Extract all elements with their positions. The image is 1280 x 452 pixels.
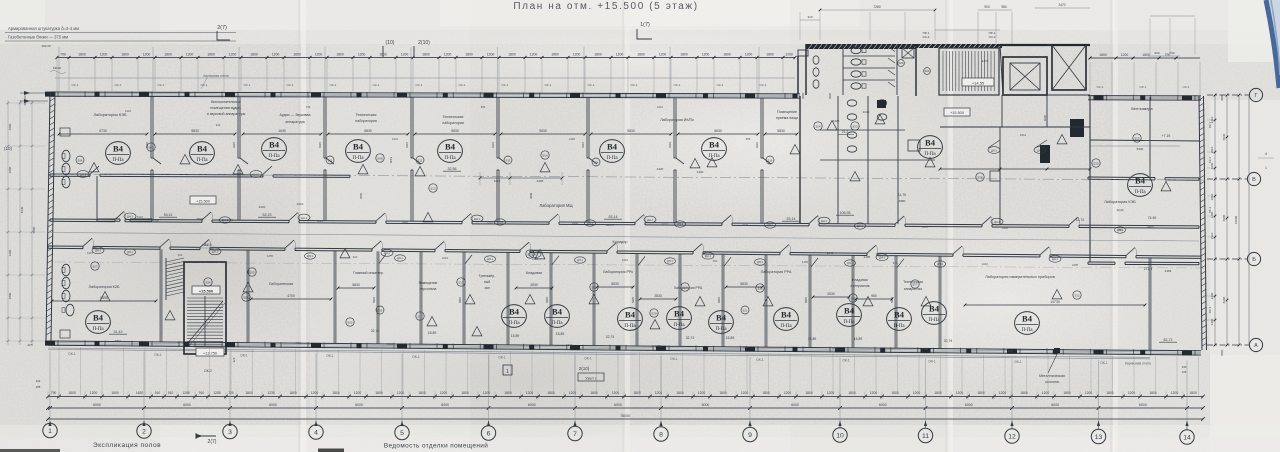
svg-text:ДН-1: ДН-1: [991, 148, 997, 152]
svg-text:533: 533: [1134, 136, 1139, 140]
svg-text:1200: 1200: [483, 391, 491, 395]
svg-text:П-Па: П-Па: [1021, 328, 1033, 333]
svg-text:790: 790: [60, 53, 66, 57]
svg-text:1200: 1200: [100, 53, 108, 57]
svg-text:48170: 48170: [606, 223, 615, 227]
svg-text:1255: 1255: [213, 391, 221, 395]
svg-text:Венткамера: Венткамера: [1131, 107, 1153, 111]
svg-text:1200: 1200: [1121, 53, 1129, 57]
svg-text:310: 310: [807, 15, 812, 19]
svg-text:ОК-1: ОК-1: [756, 358, 764, 362]
svg-text:2470: 2470: [1058, 3, 1065, 7]
svg-text:1200: 1200: [702, 53, 710, 57]
svg-text:3: 3: [228, 429, 232, 436]
svg-text:Г: Г: [1255, 93, 1258, 99]
svg-text:ОК-1: ОК-1: [1014, 360, 1022, 364]
svg-text:Лаборантская: Лаборантская: [269, 282, 293, 286]
svg-text:(10): (10): [4, 146, 13, 151]
svg-text:5945: 5945: [545, 297, 549, 303]
svg-text:4700: 4700: [287, 294, 295, 298]
svg-text:5830: 5830: [451, 129, 459, 133]
svg-text:5945: 5945: [458, 297, 462, 303]
svg-text:504: 504: [78, 158, 83, 162]
svg-text:13: 13: [1095, 434, 1103, 441]
svg-text:ОК-1: ОК-1: [842, 359, 850, 363]
svg-text:1010: 1010: [982, 262, 988, 266]
svg-text:ДН-1: ДН-1: [127, 215, 133, 219]
svg-text:ОК-1: ОК-1: [244, 83, 251, 87]
svg-text:и звуковой аппаратуры: и звуковой аппаратуры: [207, 112, 246, 116]
svg-text:ОК-1: ОК-1: [72, 83, 79, 87]
svg-text:501: 501: [243, 295, 248, 299]
svg-text:4(10): 4(10): [1116, 208, 1123, 212]
svg-text:Помещение: Помещение: [777, 110, 797, 114]
svg-text:1010: 1010: [317, 219, 323, 223]
svg-text:32,56: 32,56: [448, 167, 457, 171]
svg-text:1010: 1010: [297, 202, 304, 206]
svg-text:1255: 1255: [267, 254, 273, 258]
svg-text:ДН-1: ДН-1: [847, 262, 853, 265]
svg-text:ОК-1: ОК-1: [201, 83, 208, 87]
svg-text:6000: 6000: [614, 403, 622, 407]
svg-text:Главный инженер: Главный инженер: [353, 271, 383, 275]
svg-text:Кладовая: Кладовая: [526, 271, 542, 275]
svg-text:2465: 2465: [1165, 269, 1172, 273]
svg-text:1610: 1610: [1210, 232, 1214, 239]
svg-text:1800: 1800: [805, 391, 813, 395]
svg-text:П-Па: П-Па: [352, 156, 364, 161]
svg-text:ОК-1: ОК-1: [670, 357, 678, 361]
svg-text:1010: 1010: [922, 225, 928, 229]
svg-text:ДН-1: ДН-1: [937, 263, 943, 266]
svg-text:1200: 1200: [487, 53, 495, 57]
svg-text:1800: 1800: [245, 391, 253, 395]
svg-text:9115: 9115: [581, 142, 585, 148]
svg-text:ДН-1: ДН-1: [253, 172, 259, 176]
svg-text:ДН-1: ДН-1: [127, 251, 133, 254]
svg-text:Узел 1: Узел 1: [585, 376, 598, 381]
svg-text:1230: 1230: [267, 391, 275, 395]
svg-text:5730: 5730: [99, 129, 107, 133]
svg-text:Карнизная плита: Карнизная плита: [1125, 361, 1151, 365]
svg-text:6000: 6000: [879, 403, 887, 407]
svg-text:15,89: 15,89: [556, 332, 565, 336]
svg-text:190: 190: [1182, 365, 1187, 369]
svg-text:ОК-1: ОК-1: [68, 352, 76, 356]
svg-text:1200: 1200: [827, 391, 835, 395]
svg-text:А: А: [1254, 343, 1258, 349]
svg-text:П-Па: П-Па: [606, 156, 618, 161]
svg-text:2: 2: [142, 429, 146, 436]
svg-text:509: 509: [378, 308, 383, 312]
svg-text:5630: 5630: [714, 129, 722, 133]
svg-text:74.49: 74.49: [1148, 216, 1157, 220]
svg-text:В4: В4: [509, 307, 520, 317]
svg-text:5945: 5945: [631, 297, 635, 303]
svg-text:1800: 1800: [379, 53, 387, 57]
svg-text:910: 910: [178, 253, 183, 257]
svg-text:1800: 1800: [293, 53, 301, 57]
svg-text:2830: 2830: [530, 283, 538, 287]
svg-text:ДН-1: ДН-1: [705, 254, 711, 258]
svg-text:1630: 1630: [278, 129, 286, 133]
svg-text:1810: 1810: [1210, 193, 1214, 200]
svg-text:ОК-1: ОК-1: [498, 356, 506, 360]
svg-text:Техническая: Техническая: [356, 113, 377, 117]
svg-text:1010: 1010: [662, 222, 668, 226]
svg-text:192: 192: [36, 379, 41, 383]
svg-text:520: 520: [651, 311, 656, 315]
svg-text:Лаборатория ИК/Пк: Лаборатория ИК/Пк: [660, 118, 694, 122]
svg-text:533: 533: [852, 124, 857, 128]
svg-text:31,42: 31,42: [114, 330, 123, 334]
svg-text:ОК-1: ОК-1: [1100, 361, 1108, 365]
svg-text:910: 910: [353, 255, 358, 259]
svg-text:910: 910: [568, 343, 573, 347]
svg-text:В4: В4: [1022, 314, 1033, 324]
svg-text:6000: 6000: [791, 403, 799, 407]
svg-text:1255: 1255: [655, 344, 661, 348]
svg-text:1200: 1200: [397, 391, 405, 395]
svg-text:П-Па: П-Па: [924, 152, 936, 157]
svg-text:ОК-1: ОК-1: [154, 353, 162, 357]
svg-text:910: 910: [1008, 349, 1013, 353]
svg-text:9115: 9115: [318, 142, 322, 148]
svg-text:1200: 1200: [530, 53, 538, 57]
svg-text:1010: 1010: [622, 258, 628, 262]
svg-text:1200: 1200: [440, 391, 448, 395]
svg-text:1511: 1511: [1020, 133, 1026, 137]
svg-text:5830: 5830: [364, 129, 372, 133]
svg-text:ДН-1: ДН-1: [587, 222, 593, 225]
svg-text:лаборатория: лаборатория: [355, 119, 377, 123]
svg-text:ДН-1: ДН-1: [95, 249, 101, 253]
svg-text:(10): (10): [386, 40, 395, 46]
svg-text:5445: 5445: [389, 157, 393, 164]
svg-text:ОК-1: ОК-1: [1183, 85, 1190, 89]
svg-text:5830: 5830: [611, 282, 619, 286]
svg-text:Металлическая: Металлическая: [1039, 374, 1065, 378]
svg-text:Лаборатория МЦ: Лаборатория МЦ: [539, 203, 573, 208]
svg-text:1200: 1200: [229, 53, 237, 57]
svg-text:14730: 14730: [1050, 300, 1060, 304]
svg-text:512: 512: [418, 158, 423, 162]
svg-text:6000: 6000: [1139, 403, 1147, 407]
svg-text:Карнизная плита: Карнизная плита: [203, 74, 228, 78]
svg-text:Лаборатория измерительных приб: Лаборатория измерительных приборов: [985, 275, 1054, 279]
svg-text:2400: 2400: [572, 221, 578, 225]
svg-text:аппаратная: аппаратная: [904, 287, 922, 291]
svg-text:2420: 2420: [259, 205, 266, 209]
svg-text:2465: 2465: [1146, 225, 1153, 229]
svg-text:10: 10: [836, 433, 844, 440]
svg-text:1800: 1800: [723, 53, 731, 57]
svg-text:7260: 7260: [873, 5, 881, 9]
svg-text:1800: 1800: [762, 391, 770, 395]
svg-text:П-Па: П-Па: [92, 327, 104, 332]
svg-text:11,75: 11,75: [898, 193, 906, 197]
svg-text:ОК-1: ОК-1: [717, 83, 724, 87]
svg-text:5860: 5860: [115, 339, 121, 343]
svg-text:82,71: 82,71: [1164, 338, 1173, 342]
svg-text:5600: 5600: [197, 217, 204, 221]
svg-text:1010: 1010: [392, 137, 398, 141]
svg-text:П-Па: П-Па: [508, 321, 520, 326]
svg-text:1800: 1800: [633, 391, 641, 395]
svg-text:9115: 9115: [668, 142, 672, 148]
svg-text:960: 960: [871, 294, 877, 298]
svg-text:1800: 1800: [594, 53, 602, 57]
svg-text:1200: 1200: [659, 53, 667, 57]
svg-text:+15.500: +15.500: [950, 111, 964, 115]
svg-text:511: 511: [328, 158, 333, 162]
svg-text:910: 910: [199, 391, 205, 395]
svg-text:1800: 1800: [332, 391, 340, 395]
svg-text:лаборатория: лаборатория: [442, 121, 464, 125]
svg-text:1255: 1255: [802, 260, 808, 264]
svg-text:6000: 6000: [441, 403, 449, 407]
svg-text:6000: 6000: [702, 403, 710, 407]
svg-text:ОК-1: ОК-1: [240, 354, 248, 358]
svg-text:1800: 1800: [8, 123, 12, 130]
svg-text:1200: 1200: [612, 391, 620, 395]
svg-text:1200: 1200: [1171, 391, 1179, 395]
svg-text:ОК-1: ОК-1: [158, 83, 165, 87]
svg-text:В4: В4: [781, 310, 792, 320]
svg-text:790: 790: [1169, 51, 1174, 55]
svg-text:1810: 1810: [1210, 146, 1214, 153]
svg-text:1800: 1800: [766, 53, 774, 57]
svg-text:ОК-1: ОК-1: [631, 83, 638, 87]
svg-text:78000: 78000: [620, 414, 630, 418]
svg-text:ОК-1: ОК-1: [115, 83, 122, 87]
svg-text:1010: 1010: [832, 346, 838, 350]
svg-text:СК-1: СК-1: [1208, 156, 1212, 163]
svg-text:Кладовая: Кладовая: [852, 278, 867, 282]
svg-text:1200: 1200: [1128, 391, 1136, 395]
svg-text:910: 910: [155, 391, 161, 395]
svg-text:ОК-2: ОК-2: [989, 35, 996, 39]
svg-text:656: 656: [481, 105, 486, 109]
svg-text:1800: 1800: [637, 53, 645, 57]
svg-text:В: В: [1252, 177, 1256, 183]
svg-text:2185: 2185: [864, 255, 871, 259]
svg-text:1800: 1800: [891, 391, 899, 395]
svg-text:П-Па: П-Па: [624, 324, 636, 329]
svg-text:В4: В4: [93, 313, 104, 323]
svg-text:+15.500: +15.500: [199, 289, 213, 294]
svg-text:Лаборатория КЭБ: Лаборатория КЭБ: [1104, 200, 1136, 204]
svg-text:6930: 6930: [359, 193, 363, 200]
svg-text:271,4: 271,4: [1144, 267, 1153, 271]
svg-text:6000: 6000: [965, 403, 973, 407]
svg-text:1800: 1800: [547, 391, 555, 395]
svg-text:5: 5: [400, 430, 404, 437]
svg-text:Лаборатория КЭБ: Лаборатория КЭБ: [93, 112, 127, 117]
svg-text:П-Па: П-Па: [196, 158, 208, 163]
svg-text:910: 910: [743, 345, 748, 349]
svg-text:ДН-1: ДН-1: [1052, 257, 1058, 261]
svg-text:530: 530: [1093, 161, 1098, 165]
svg-text:ДН-1: ДН-1: [767, 224, 773, 227]
svg-text:ОК-1: ОК-1: [416, 83, 423, 87]
svg-text:Вспомогательные: Вспомогательные: [211, 100, 241, 104]
svg-text:2830: 2830: [654, 294, 662, 298]
svg-text:1800: 1800: [207, 53, 215, 57]
svg-text:ДН-1: ДН-1: [994, 220, 1000, 224]
svg-text:ДН-1: ДН-1: [307, 255, 313, 258]
svg-text:1(7): 1(7): [640, 22, 650, 28]
svg-text:12: 12: [1008, 434, 1016, 441]
svg-text:П-Па: П-Па: [928, 318, 940, 323]
svg-text:1200: 1200: [186, 53, 194, 57]
svg-text:ДН-1: ДН-1: [879, 256, 885, 260]
svg-text:ДН-1: ДН-1: [474, 217, 480, 221]
svg-text:6000: 6000: [355, 403, 363, 407]
svg-text:1800: 1800: [504, 391, 512, 395]
svg-text:533: 533: [527, 252, 532, 256]
svg-text:ОК-1: ОК-1: [330, 83, 337, 87]
svg-text:ДН-1: ДН-1: [667, 260, 673, 263]
svg-text:В4: В4: [607, 142, 618, 152]
svg-text:П-Па: П-Па: [268, 154, 280, 159]
svg-text:1200: 1200: [401, 53, 409, 57]
svg-text:6000: 6000: [269, 403, 277, 407]
svg-text:1800: 1800: [719, 391, 727, 395]
svg-text:+14.55: +14.55: [972, 81, 985, 86]
svg-text:310: 310: [216, 123, 221, 127]
svg-text:В4: В4: [197, 144, 208, 154]
svg-text:+7.19: +7.19: [1162, 134, 1171, 138]
svg-text:2420: 2420: [833, 119, 840, 123]
svg-text:ный: ный: [484, 280, 490, 284]
svg-text:6000: 6000: [183, 403, 191, 407]
svg-text:9: 9: [748, 432, 752, 439]
svg-text:2420: 2420: [402, 220, 408, 224]
svg-text:521: 521: [743, 308, 748, 312]
svg-text:1200: 1200: [311, 391, 319, 395]
svg-text:В4: В4: [1135, 176, 1146, 186]
svg-text:5945: 5945: [890, 297, 894, 303]
svg-text:В4: В4: [269, 140, 280, 150]
svg-text:1: 1: [48, 428, 52, 435]
svg-text:1800: 1800: [336, 53, 344, 57]
svg-text:1800: 1800: [676, 391, 684, 395]
svg-text:1800: 1800: [78, 53, 86, 57]
svg-text:ОК-1: ОК-1: [760, 83, 767, 87]
svg-text:2420: 2420: [569, 137, 575, 141]
svg-text:ДН-1: ДН-1: [1117, 229, 1123, 232]
svg-text:Помещение: Помещение: [419, 281, 438, 285]
svg-text:1200: 1200: [745, 53, 753, 57]
svg-text:5830: 5830: [539, 129, 547, 133]
svg-text:П-Па: П-Па: [673, 323, 685, 328]
svg-text:1200: 1200: [1210, 162, 1214, 169]
svg-text:ДН-1: ДН-1: [647, 218, 653, 222]
svg-text:1040: 1040: [827, 251, 834, 255]
svg-text:1800: 1800: [289, 391, 297, 395]
svg-text:532: 532: [1074, 293, 1079, 297]
svg-text:ДН-1: ДН-1: [384, 251, 390, 255]
svg-text:16000: 16000: [1234, 215, 1238, 224]
svg-text:1800: 1800: [68, 391, 76, 395]
svg-text:2(7): 2(7): [217, 25, 227, 31]
svg-text:1800: 1800: [1106, 391, 1114, 395]
svg-text:11: 11: [922, 433, 929, 440]
svg-text:790: 790: [51, 391, 57, 395]
svg-text:2405: 2405: [532, 257, 538, 261]
svg-text:8: 8: [659, 432, 663, 439]
svg-text:1200: 1200: [358, 53, 366, 57]
svg-text:502: 502: [148, 145, 153, 149]
svg-text:ОК-1: ОК-1: [459, 83, 466, 87]
svg-text:9115: 9115: [491, 142, 495, 148]
svg-text:5830: 5830: [352, 283, 360, 287]
svg-text:6000: 6000: [1222, 214, 1226, 221]
svg-text:503: 503: [249, 270, 254, 274]
svg-text:514: 514: [542, 153, 547, 157]
svg-text:ДН-1: ДН-1: [577, 259, 583, 262]
svg-text:Б: Б: [1252, 257, 1256, 263]
svg-text:656: 656: [746, 137, 751, 141]
svg-text:Коридор: Коридор: [613, 240, 628, 244]
svg-text:15,89: 15,89: [808, 337, 817, 341]
svg-text:+15.500: +15.500: [196, 199, 210, 203]
svg-text:4: 4: [1265, 152, 1267, 156]
svg-text:185: 185: [36, 385, 41, 389]
svg-text:ДН-1: ДН-1: [757, 261, 763, 264]
svg-text:3040: 3040: [863, 110, 870, 114]
svg-text:+13.750: +13.750: [203, 351, 218, 356]
svg-text:помещения аудио-: помещения аудио-: [210, 106, 242, 110]
svg-text:Техническая: Техническая: [443, 115, 464, 119]
svg-text:910: 910: [713, 259, 718, 263]
svg-text:Экспликация полов: Экспликация полов: [93, 442, 161, 449]
svg-text:4700: 4700: [295, 341, 301, 345]
svg-text:513: 513: [458, 280, 463, 284]
svg-text:2(10): 2(10): [418, 40, 430, 46]
svg-text:1200: 1200: [870, 391, 878, 395]
svg-text:1255: 1255: [182, 391, 190, 395]
svg-text:514: 514: [594, 160, 599, 164]
svg-text:1410: 1410: [202, 243, 208, 247]
svg-text:1010: 1010: [137, 215, 143, 219]
svg-text:1800: 1800: [418, 391, 426, 395]
svg-text:1800: 1800: [8, 166, 12, 173]
svg-text:Техническая: Техническая: [903, 280, 923, 284]
svg-text:1200: 1200: [698, 391, 706, 395]
svg-text:Ведомость отделки помещений: Ведомость отделки помещений: [384, 442, 488, 450]
svg-text:530: 530: [924, 69, 929, 73]
svg-text:1800: 1800: [111, 391, 119, 395]
svg-text:1200: 1200: [573, 53, 581, 57]
svg-text:Тренажёр-: Тренажёр-: [479, 274, 496, 278]
svg-text:524: 524: [815, 124, 820, 128]
svg-text:502: 502: [347, 320, 352, 324]
svg-text:6030: 6030: [1222, 133, 1226, 140]
svg-text:6085: 6085: [1043, 114, 1047, 121]
svg-text:190 20: 190 20: [41, 44, 51, 48]
svg-text:910: 910: [893, 261, 898, 265]
svg-text:ОК-1: ОК-1: [1140, 85, 1147, 89]
svg-text:ДН-1: ДН-1: [857, 225, 863, 228]
svg-text:1200: 1200: [1085, 391, 1093, 395]
svg-text:1200: 1200: [1210, 211, 1214, 218]
svg-text:Лаборатория РРА: Лаборатория РРА: [761, 270, 792, 274]
svg-text:П-Па: П-Па: [780, 324, 792, 329]
svg-text:Лаборатория К2Б: Лаборатория К2Б: [89, 285, 121, 289]
svg-text:2400: 2400: [697, 170, 704, 174]
